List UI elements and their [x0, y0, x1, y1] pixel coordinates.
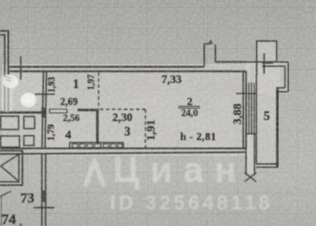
room5 left wall [255, 75, 257, 164]
dark hatch segment on wall [42, 191, 46, 203]
wall top-left corner outer [0, 31, 8, 113]
wall top-left corner inner [0, 35, 5, 113]
room5 right wall thick [276, 88, 279, 168]
room1 left wall [42, 71, 44, 148]
shaft hatch verticals [245, 83, 247, 134]
dashed line room3 right [144, 109, 146, 148]
right inner wall [284, 66, 286, 88]
shaft column sides [245, 134, 247, 175]
chevron logo [86, 161, 103, 184]
room2 right wall inner [242, 71, 244, 148]
white smudge blobs [1, 74, 36, 112]
faint left edge line [0, 197, 2, 226]
room1 bottom wall [0, 111, 46, 113]
top wall upper line [9, 66, 204, 68]
tick crossing right wall [236, 93, 257, 95]
divider tick top-left [20, 56, 22, 80]
elevator crossed box inner [0, 154, 19, 182]
T-wall vertical room3/room4 divider [96, 110, 99, 143]
bottom wall upper line [0, 147, 246, 149]
top wall lower line [9, 70, 246, 72]
shaft top horizontal [215, 61, 288, 63]
dashed line room1 right [98, 72, 100, 109]
watermark [86, 149, 273, 215]
T-wall horizontal [78, 109, 99, 112]
fraction bar [178, 106, 200, 108]
window mark in shaft [263, 53, 265, 74]
dimension tick 1,93 [35, 93, 55, 95]
dashed line room3 top [100, 108, 145, 110]
right outer wall [287, 62, 289, 92]
kitchen grid neighbor boxes [1, 116, 19, 129]
wall junction blob [41, 108, 46, 118]
door leaf room1/room4 [50, 109, 67, 112]
vent duct left side [203, 44, 205, 67]
inner top horizontal right [262, 65, 285, 67]
vent duct right side [214, 45, 216, 62]
tick on lower wall [34, 207, 55, 209]
room2 right wall outer [245, 71, 247, 148]
jog outer [277, 91, 289, 93]
wall below to bottom edge [41, 154, 43, 227]
small shaft box top-right [257, 41, 277, 75]
stray diagonal near 74 [0, 191, 11, 197]
vent break mark [209, 41, 213, 45]
shaft X mark [245, 173, 257, 182]
vent duct top tick [204, 43, 211, 45]
room5 bottom wall [256, 163, 278, 165]
elevator X diagonals [0, 154, 19, 181]
hatch cap [246, 133, 257, 135]
closet squares [72, 144, 78, 148]
closet row outline [70, 143, 124, 149]
jog inner [277, 87, 286, 89]
elevator crossed box outer [0, 151, 22, 186]
interior lighter paper [2, 40, 290, 174]
bottom wall lower line [0, 152, 246, 154]
